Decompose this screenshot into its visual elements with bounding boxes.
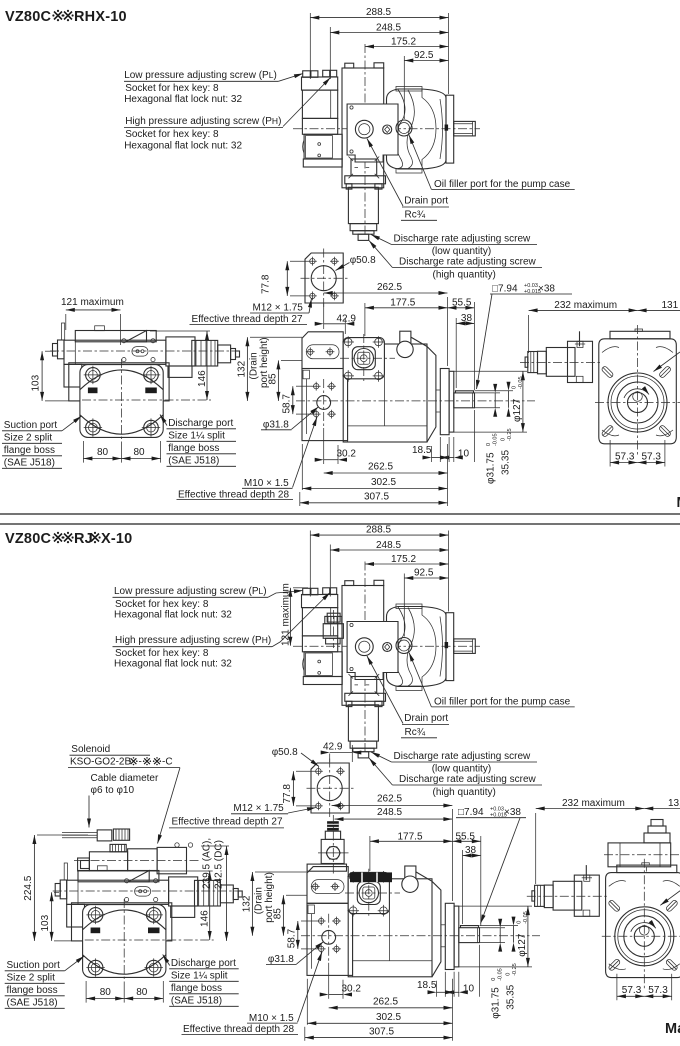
label: low pressure adjusting screw s1 <box>124 70 331 151</box>
svg-text:232 maximum: 232 maximum <box>562 798 625 809</box>
dim 42.9 s2 <box>329 754 331 763</box>
separator line 2 <box>0 523 680 525</box>
rear view s2 <box>527 859 680 1001</box>
dim 224.5 s2 <box>33 835 35 941</box>
svg-text:×38: ×38 <box>538 284 555 295</box>
svg-text:77.8: 77.8 <box>261 274 272 294</box>
top view s2 <box>293 525 575 799</box>
svg-text:Hexagonal flat lock nut: 32: Hexagonal flat lock nut: 32 <box>114 659 232 670</box>
svg-text:Cable diameter: Cable diameter <box>91 773 159 784</box>
svg-text:248.5: 248.5 <box>377 807 402 818</box>
svg-text:131: 131 <box>662 300 679 311</box>
svg-text:Socket for hex key: 8: Socket for hex key: 8 <box>125 129 219 140</box>
svg-text:177.5: 177.5 <box>390 297 415 308</box>
svg-text:Effective thread depth 27: Effective thread depth 27 <box>192 314 303 325</box>
dims above front view s1 <box>324 282 572 390</box>
svg-text:262.5: 262.5 <box>377 794 402 805</box>
svg-text:262.5: 262.5 <box>377 282 402 293</box>
svg-text:Hexagonal flat lock nut: 32: Hexagonal flat lock nut: 32 <box>124 141 242 152</box>
svg-text:X-10: X-10 <box>101 531 132 547</box>
svg-text:239.5 (AC),: 239.5 (AC), <box>202 838 213 889</box>
svg-text:Socket for hex key: 8: Socket for hex key: 8 <box>115 648 209 659</box>
svg-text:Low pressure adjusting screw (: Low pressure adjusting screw (PL) <box>124 70 277 81</box>
side view s1 <box>2 323 240 469</box>
svg-text:103: 103 <box>31 374 42 391</box>
svg-text:Socket for hex key: 8: Socket for hex key: 8 <box>125 83 219 94</box>
svg-text:Ma: Ma <box>665 1021 680 1037</box>
svg-text:High pressure adjusting screw: High pressure adjusting screw (PH) <box>115 635 271 646</box>
solenoid on rear view s2 <box>608 843 671 867</box>
svg-text:38: 38 <box>461 313 473 324</box>
svg-text:55.5: 55.5 <box>456 831 476 842</box>
svg-text:×38: ×38 <box>504 807 521 818</box>
solenoid valve assembly (side view s2) <box>78 829 187 874</box>
svg-text:□7.94: □7.94 <box>458 807 484 818</box>
dim 232 maximum / 131 (s1) <box>529 300 680 353</box>
front view s1 <box>177 331 536 506</box>
leader to high pressure screw <box>283 78 331 127</box>
dim 77.8 s2 <box>292 771 294 806</box>
svg-text:-: - <box>139 757 142 768</box>
svg-text:□7.94: □7.94 <box>492 284 518 295</box>
svg-text:Hexagonal flat lock nut: 32: Hexagonal flat lock nut: 32 <box>114 610 232 621</box>
separator line 1 <box>0 513 680 515</box>
svg-text:Solenoid: Solenoid <box>71 744 110 755</box>
phi50.8 gauge plate s2 <box>311 763 349 813</box>
svg-text:VZ80C: VZ80C <box>5 9 51 25</box>
svg-text:224.5: 224.5 <box>23 875 34 900</box>
subplate dark band (front view s2) <box>350 872 392 882</box>
svg-text:KSO-GO2-2B: KSO-GO2-2B <box>70 757 131 768</box>
solenoid pilot valve on top view s2 <box>323 613 343 644</box>
leader to low pressure screw s2 <box>268 591 303 598</box>
rear view s1 <box>520 325 680 467</box>
svg-text:42.9: 42.9 <box>323 742 343 753</box>
svg-text:232 maximum: 232 maximum <box>554 300 617 311</box>
svg-text:121 maximum: 121 maximum <box>61 297 124 308</box>
svg-text:M: M <box>677 495 680 511</box>
dim 77.8 s1 <box>286 261 288 296</box>
svg-text:High pressure adjusting screw: High pressure adjusting screw (PH) <box>125 116 281 127</box>
svg-text:121 maximum: 121 maximum <box>280 583 291 646</box>
svg-text:φ6 to φ10: φ6 to φ10 <box>91 785 135 796</box>
title section 2: VZ80C**RJ*X-10 <box>5 531 132 547</box>
dim 103 s2 <box>51 892 53 941</box>
leader to high pressure screw s2 <box>272 593 330 647</box>
side view s2 <box>5 863 243 1009</box>
svg-text:177.5: 177.5 <box>398 831 423 842</box>
svg-text:38: 38 <box>465 845 477 856</box>
dim 42.9 s1 <box>323 303 325 329</box>
svg-text:-C: -C <box>162 757 173 768</box>
svg-text:103: 103 <box>40 914 51 931</box>
svg-text:Socket for hex key: 8: Socket for hex key: 8 <box>115 599 209 610</box>
svg-text:RJ: RJ <box>74 531 93 547</box>
dim 103 (s1) <box>41 351 43 401</box>
svg-text:55.5: 55.5 <box>452 297 472 308</box>
pilot valve stack (front view s2) <box>327 821 339 830</box>
svg-text:Low pressure adjusting screw (: Low pressure adjusting screw (PL) <box>114 586 267 597</box>
svg-text:M12 × 1.75: M12 × 1.75 <box>233 803 284 814</box>
front view s2 <box>182 866 541 1041</box>
phi50.8 gauge plate s1 <box>190 249 377 335</box>
svg-text:42.9: 42.9 <box>337 314 357 325</box>
svg-text:77.8: 77.8 <box>282 784 293 804</box>
svg-text:φ50.8: φ50.8 <box>350 255 376 266</box>
svg-text:242.5 (DC): 242.5 (DC) <box>214 840 225 889</box>
leader to low pressure screw <box>278 74 303 82</box>
svg-text:φ50.8: φ50.8 <box>272 747 298 758</box>
svg-text:M12 × 1.75: M12 × 1.75 <box>253 303 304 314</box>
title section 1: VZ80C**RHX-10 <box>5 9 127 25</box>
svg-text:RHX-10: RHX-10 <box>74 9 127 25</box>
svg-text:Hexagonal flat lock nut: 32: Hexagonal flat lock nut: 32 <box>124 94 242 105</box>
svg-text:VZ80C: VZ80C <box>5 531 51 547</box>
svg-text:131: 131 <box>668 798 680 809</box>
svg-text:Effective thread depth 27: Effective thread depth 27 <box>172 817 283 828</box>
